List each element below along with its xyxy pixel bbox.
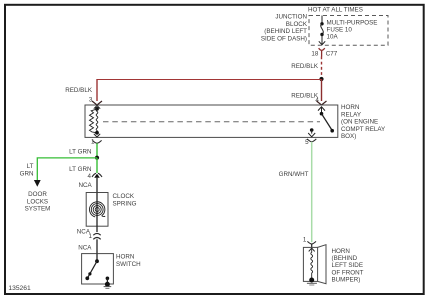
label HORN RELAY (ON ENGINE COMPT RELAY BOX) — [341, 104, 386, 140]
node junction dot green — [95, 156, 99, 160]
horn coil entry arrow — [309, 248, 315, 251]
connector at relay pin 3 — [92, 101, 102, 105]
ground at horn — [307, 278, 317, 286]
clock spring spiral — [89, 202, 105, 217]
relay K1 box — [85, 105, 338, 137]
label fuse values — [327, 20, 378, 41]
svg-text:RED/BLK: RED/BLK — [291, 63, 319, 70]
connector inline above horn switch — [93, 233, 100, 239]
svg-text:SPRING: SPRING — [113, 200, 137, 207]
svg-text:GRN: GRN — [20, 171, 34, 178]
horn switch contact — [96, 254, 98, 262]
wire RED/BLK dashed from C77 to junction — [321, 57, 323, 79]
svg-text:C77: C77 — [326, 51, 338, 58]
wire red vertical to relay pin 3 — [96, 79, 98, 101]
wire through clock spring — [96, 193, 98, 227]
wire LT GRN pin1 down — [96, 143, 98, 158]
relay switch pole — [310, 128, 314, 132]
svg-text:LT GRN: LT GRN — [69, 166, 91, 173]
svg-text:18: 18 — [311, 51, 318, 58]
relay internal dashed link — [103, 121, 320, 123]
svg-text:BLOCK: BLOCK — [286, 21, 308, 28]
label LT GRN branch — [20, 163, 34, 178]
horn switch box — [82, 254, 114, 284]
connector at relay pin 1 — [92, 140, 101, 143]
wire GRN/WHT — [311, 142, 313, 242]
svg-text:DOOR: DOOR — [28, 191, 47, 198]
svg-text:NCA: NCA — [78, 182, 92, 189]
svg-text:1: 1 — [303, 236, 307, 243]
fuse box (HOT AT ALL TIMES) — [309, 16, 388, 46]
horn box — [303, 247, 317, 281]
relay switch contact — [320, 112, 324, 116]
svg-text:SWITCH: SWITCH — [116, 261, 141, 268]
svg-text:(BEHIND LEFT: (BEHIND LEFT — [264, 28, 307, 35]
relay switch entry arrow pin4 — [318, 107, 325, 111]
horn coil — [311, 249, 313, 278]
connector at clock spring pin 4 — [92, 173, 102, 178]
svg-text:NCA: NCA — [78, 244, 92, 251]
wire red vertical to relay pin 4 — [321, 79, 323, 101]
svg-text:CLOCK: CLOCK — [113, 193, 135, 200]
relay coil (resistor) — [95, 107, 99, 111]
svg-text:RELAY: RELAY — [341, 111, 362, 118]
svg-text:SIDE OF DASH): SIDE OF DASH) — [261, 35, 307, 42]
relay coil exit arrow pin1 — [94, 134, 100, 137]
wire NCA to clock spring — [96, 178, 98, 193]
svg-text:RED/BLK: RED/BLK — [65, 87, 93, 94]
ground at horn switch — [104, 282, 112, 289]
svg-text:3: 3 — [89, 97, 93, 104]
label DOOR LOCKS SYSTEM — [25, 191, 51, 213]
svg-text:HORN: HORN — [332, 248, 350, 255]
svg-text:BOX): BOX) — [341, 133, 356, 140]
clock spring box — [86, 193, 108, 227]
svg-text:LOCKS: LOCKS — [27, 198, 48, 205]
svg-text:OF FRONT: OF FRONT — [332, 269, 364, 276]
svg-text:BUMPER): BUMPER) — [332, 277, 361, 284]
svg-text:SYSTEM: SYSTEM — [25, 206, 51, 213]
svg-text:HORN: HORN — [341, 104, 359, 111]
svg-text:4: 4 — [88, 173, 92, 180]
horn switch output contact — [106, 277, 110, 281]
fuse F1 MULTI-PURPOSE FUSE 10 10A — [319, 16, 325, 45]
wire LT GRN down to clock spring — [96, 158, 98, 173]
svg-text:1: 1 — [89, 233, 93, 240]
svg-text:GRN/WHT: GRN/WHT — [279, 171, 309, 178]
connector C77 pin 18 — [319, 48, 325, 56]
svg-text:FUSE 10: FUSE 10 — [327, 26, 353, 33]
wire NCA to horn switch — [96, 239, 98, 253]
label HORN (BEHIND LEFT SIDE OF FRONT BUMPER) — [332, 248, 364, 284]
horn flare — [318, 245, 326, 284]
connector at horn pin 1 — [307, 241, 316, 244]
svg-text:LT: LT — [27, 163, 34, 170]
svg-text:(ON ENGINE: (ON ENGINE — [341, 119, 378, 126]
svg-text:10A: 10A — [327, 33, 339, 40]
svg-text:JUNCTION: JUNCTION — [275, 14, 307, 21]
svg-text:(BEHIND: (BEHIND — [332, 255, 358, 262]
wire red horizontal — [97, 79, 322, 81]
label JUNCTION BLOCK (BEHIND LEFT SIDE OF DASH) — [261, 14, 308, 43]
label CLOCK SPRING — [113, 193, 137, 207]
node junction dot — [319, 77, 323, 81]
wire NCA below clock spring — [96, 226, 98, 232]
relay coil entry arrow pin3 — [94, 106, 100, 109]
arrow to door locks — [34, 180, 41, 187]
svg-text:135261: 135261 — [8, 285, 31, 292]
connector at relay pin 5 — [307, 139, 316, 142]
svg-text:COMPT RELAY: COMPT RELAY — [341, 126, 386, 133]
connector at relay pin 4 — [317, 101, 327, 105]
wire LT GRN horizontal branch — [37, 158, 97, 181]
svg-text:LT GRN: LT GRN — [69, 149, 91, 156]
svg-text:HOT AT ALL TIMES: HOT AT ALL TIMES — [308, 7, 363, 14]
svg-text:HORN: HORN — [116, 254, 134, 261]
label HORN SWITCH — [116, 254, 141, 268]
svg-text:LEFT SIDE: LEFT SIDE — [332, 262, 364, 269]
